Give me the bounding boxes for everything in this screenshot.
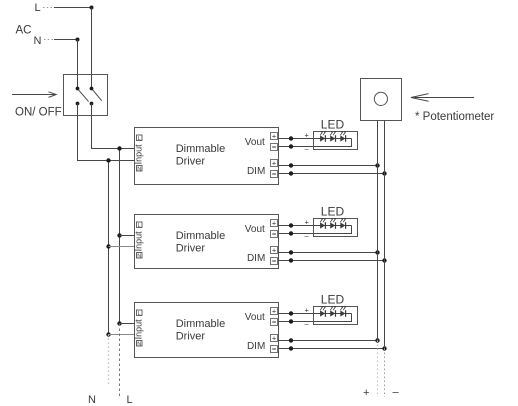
svg-text:+: +	[305, 306, 310, 315]
junction: DIM- bus tap driver2	[382, 258, 386, 262]
svg-text:–: –	[393, 387, 400, 399]
LED3 diode D3	[340, 306, 346, 317]
svg-text:Driver: Driver	[176, 331, 206, 343]
U3 input terminal L	[137, 310, 143, 317]
junction: L bus tap driver3	[117, 321, 121, 325]
U3 terminal Vout+	[271, 307, 278, 316]
U1 input terminal L	[137, 135, 143, 142]
LED3 diode D2	[330, 306, 336, 317]
wire: driver3 DIM+ to bus	[279, 340, 378, 342]
wire: driver2 DIM- to bus	[279, 260, 385, 262]
wire: N distribution bus	[108, 161, 110, 335]
wire: driver3 L input stub	[120, 323, 135, 325]
wire: driver2 DIM+ to bus	[279, 252, 378, 254]
wire: driver2 Vout+ to LED2	[279, 225, 352, 227]
junction: DIM+ dot near driver2	[289, 250, 293, 254]
svg-text:Vout: Vout	[245, 224, 265, 235]
junction: DIM+ dot near driver3	[289, 338, 293, 342]
svg-text:L: L	[138, 136, 141, 142]
U1 terminal Vout+	[271, 132, 278, 141]
svg-text:Vout: Vout	[245, 137, 265, 148]
wire: DIM+ feed-through (dotted)	[377, 341, 379, 398]
svg-text:Driver: Driver	[176, 243, 206, 255]
potentiometer RV1 knob	[374, 92, 387, 105]
wire: driver3 N input stub	[109, 334, 135, 336]
junction: DIM- bus tap driver1	[382, 171, 386, 175]
svg-text:N: N	[34, 35, 42, 47]
switch S1 pole1 bottom contact	[76, 102, 80, 106]
arrow: potentiometer pointer	[412, 97, 474, 99]
wire: driver1 DIM- to bus	[279, 173, 385, 175]
LED1 diode D3	[340, 131, 346, 142]
switch S1 pole2 top contact	[90, 87, 94, 91]
wire: LED1 return to Vout-	[279, 139, 352, 147]
wire: N drop into switch	[77, 40, 79, 89]
wire: driver3 DIM- to bus	[279, 348, 385, 350]
junction: DIM+ bus tap driver3	[375, 338, 379, 342]
LED2 diode D3	[340, 218, 346, 229]
svg-text:L: L	[138, 311, 141, 317]
svg-text:DIM: DIM	[247, 341, 265, 352]
wire: L distribution bus	[119, 149, 121, 324]
svg-text:DIM: DIM	[247, 166, 265, 177]
svg-text:Input: Input	[134, 319, 144, 340]
U3 input terminal N	[137, 341, 143, 348]
U1 terminal Vout-	[271, 144, 278, 151]
switch S1 pole1 top contact	[76, 87, 80, 91]
junction: Vout- dot	[289, 144, 293, 148]
wire: L label leader (dotted)	[43, 7, 54, 9]
junction: N bus tap driver2	[106, 244, 110, 248]
svg-text:+: +	[272, 159, 276, 168]
LED2 diode D2	[330, 218, 336, 229]
U1 terminal DIM-	[271, 171, 278, 178]
U2 terminal DIM+	[271, 246, 278, 255]
svg-text:L: L	[127, 394, 133, 406]
wire: N top rail	[54, 39, 78, 41]
switch S1 pole1 blade	[78, 90, 88, 102]
wire: driver3 Vout+ to LED3	[279, 313, 352, 315]
dimmable driver U2 body	[135, 215, 279, 269]
wire: driver1 Vout+ to LED1	[279, 138, 352, 140]
wire: L switch output to driver1 L input	[92, 104, 135, 149]
junction: N bus tap driver1	[106, 158, 110, 162]
wire: N label leader (dotted)	[44, 39, 54, 41]
dimmable driver U1 body	[135, 128, 279, 185]
U1 input terminal N	[137, 166, 143, 173]
junction: N bus tap driver3	[106, 332, 110, 336]
svg-text:N: N	[137, 167, 141, 173]
svg-text:AC: AC	[16, 25, 32, 37]
svg-text:LED: LED	[321, 293, 345, 307]
U2 terminal DIM-	[271, 258, 278, 265]
U2 input terminal L	[137, 222, 143, 229]
svg-text:+: +	[363, 387, 369, 399]
dimmable driver U3 body	[135, 303, 279, 358]
potentiometer RV1 body	[361, 79, 402, 121]
switch S1 pole2 bottom contact	[90, 102, 94, 106]
U1 terminal DIM+	[271, 159, 278, 168]
svg-text:+: +	[272, 334, 276, 343]
svg-text:L: L	[35, 2, 41, 14]
svg-text:N: N	[88, 394, 96, 406]
junction: N rail corner	[76, 38, 80, 42]
svg-text:+: +	[272, 307, 276, 316]
wire: driver2 L input stub	[120, 235, 135, 237]
U3 terminal DIM-	[271, 346, 278, 353]
junction: Vout+ dot	[289, 136, 293, 140]
wire: L feed-through (dashed)	[119, 324, 121, 397]
junction: DIM- dot near driver3	[289, 346, 293, 350]
junction: DIM+ dot near driver1	[289, 163, 293, 167]
svg-text:+: +	[305, 131, 310, 140]
svg-text:Input: Input	[134, 231, 144, 252]
svg-text:Vout: Vout	[245, 312, 265, 323]
junction: DIM- bus tap driver3	[382, 346, 386, 350]
wire: DIM- feed-through (dotted)	[384, 349, 386, 398]
svg-text:+: +	[272, 219, 276, 228]
svg-text:LED: LED	[321, 205, 345, 219]
LED1 diode D1	[320, 131, 326, 142]
svg-text:Dimmable: Dimmable	[176, 230, 226, 242]
svg-text:Input: Input	[134, 144, 144, 165]
U2 terminal Vout+	[271, 219, 278, 228]
junction: L rail corner	[90, 6, 94, 10]
wire: N switch output to driver1 N input	[78, 104, 135, 161]
wire: DIM- bus vertical	[384, 121, 386, 349]
wire: L top rail	[54, 7, 92, 9]
junction: Vout+ dot	[289, 223, 293, 227]
junction: DIM- dot near driver2	[289, 258, 293, 262]
U1 label Dimmable Driver	[176, 143, 226, 168]
U2 label Dimmable Driver	[176, 230, 226, 255]
svg-text:* Potentiometer: * Potentiometer	[415, 111, 494, 123]
arrow: switch actuator	[12, 94, 55, 96]
svg-text:N: N	[137, 254, 141, 260]
wire: LED2 return to Vout-	[279, 226, 352, 234]
svg-text:Driver: Driver	[176, 156, 206, 168]
junction: L bus tap driver2	[117, 233, 121, 237]
svg-text:+: +	[272, 132, 276, 141]
svg-text:+: +	[272, 246, 276, 255]
switch S1 ON/OFF (DPST) body	[64, 75, 108, 116]
junction: Vout+ dot	[289, 311, 293, 315]
junction: L bus tap driver1	[117, 146, 121, 150]
wire: DIM+ bus vertical	[377, 121, 379, 341]
svg-text:L: L	[138, 223, 141, 229]
LED module LED2 outline	[314, 219, 358, 237]
wire: driver1 DIM+ to bus	[279, 165, 378, 167]
svg-text:+: +	[305, 218, 310, 227]
LED2 diode D1	[320, 218, 326, 229]
wire: N feed-through (dotted)	[108, 335, 110, 387]
svg-text:Dimmable: Dimmable	[176, 143, 226, 155]
LED module LED1 outline	[314, 132, 358, 150]
junction: Vout- dot	[289, 231, 293, 235]
U3 terminal DIM+	[271, 334, 278, 343]
U3 terminal Vout-	[271, 319, 278, 326]
svg-text:LED: LED	[321, 118, 345, 132]
junction: DIM+ bus tap driver1	[375, 163, 379, 167]
svg-text:N: N	[137, 342, 141, 348]
svg-text:ON/ OFF: ON/ OFF	[15, 107, 62, 119]
svg-text:Dimmable: Dimmable	[176, 318, 226, 330]
junction: DIM- dot near driver1	[289, 171, 293, 175]
svg-text:DIM: DIM	[247, 253, 265, 264]
junction: Vout- dot	[289, 319, 293, 323]
LED module LED3 outline	[314, 307, 358, 325]
LED1 diode D2	[330, 131, 336, 142]
switch S1 pole2 blade	[93, 90, 102, 101]
wire: LED3 return to Vout-	[279, 314, 352, 322]
U2 terminal Vout-	[271, 231, 278, 238]
wire: driver2 N input stub	[109, 246, 135, 248]
junction: DIM+ bus tap driver2	[375, 250, 379, 254]
U3 label Dimmable Driver	[176, 318, 226, 343]
U2 input terminal N	[137, 253, 143, 260]
wire: L drop into switch	[91, 8, 93, 89]
LED3 diode D1	[320, 306, 326, 317]
